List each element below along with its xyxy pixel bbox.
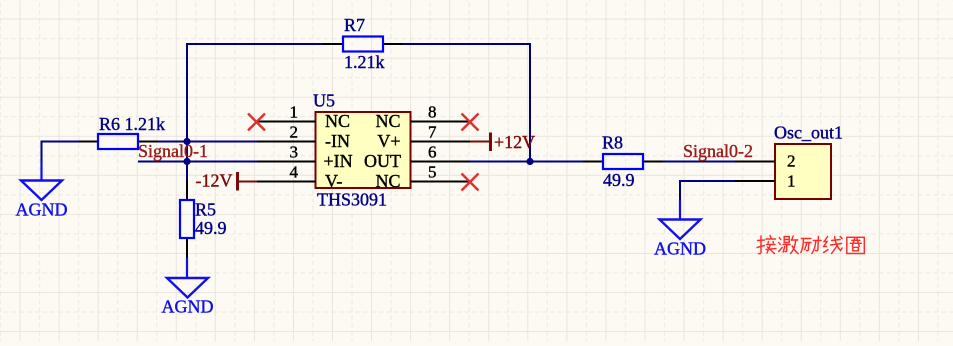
U5 pin 2 (257, 141, 316, 143)
no connect X on pin 8 (462, 114, 479, 131)
svg-text:2: 2 (787, 152, 796, 171)
svg-text:1.21k: 1.21k (344, 52, 385, 72)
svg-text:R8: R8 (602, 133, 623, 153)
wire R7 right to output node (403, 44, 530, 162)
svg-text:V+: V+ (377, 131, 400, 151)
wire -IN net from R6 to pin 2 (158, 141, 257, 143)
svg-text:49.9: 49.9 (603, 170, 635, 190)
svg-text:1: 1 (290, 103, 299, 122)
svg-text:AGND: AGND (162, 297, 214, 317)
wire R6 left to AGND corner (42, 142, 80, 162)
svg-text:1: 1 (787, 172, 796, 191)
svg-text:6: 6 (428, 143, 437, 162)
svg-text:-12V: -12V (196, 171, 233, 191)
annotation text 接激励线圈 drawn as strokes (757, 236, 864, 254)
U5 pin 1 (257, 121, 316, 123)
U5 pin 8 (411, 121, 471, 123)
char li 励 (801, 237, 821, 254)
op-amp U5 THS3091 (316, 112, 411, 188)
resistor R7 (323, 37, 403, 52)
svg-text:NC: NC (325, 111, 350, 131)
svg-text:7: 7 (428, 123, 437, 142)
wire R8 to connector pin 2 (663, 161, 735, 163)
resistor R6 (79, 134, 158, 149)
ground AGND right power port (654, 200, 706, 259)
resistor R8 (583, 154, 663, 169)
power port -12V (196, 171, 258, 191)
svg-text:R6 1.21k: R6 1.21k (99, 114, 165, 134)
svg-text:R7: R7 (344, 15, 365, 35)
svg-text:Osc_out1: Osc_out1 (774, 123, 843, 143)
svg-text:NC: NC (375, 111, 400, 131)
svg-text:+IN: +IN (324, 151, 353, 171)
wire +IN net stub to pin 3 (138, 161, 257, 163)
char ji 激 (779, 236, 799, 254)
power port +12V on pin 7 (470, 132, 535, 152)
svg-text:+12V: +12V (494, 132, 535, 152)
ground AGND left power port (16, 162, 68, 220)
no connect X on pin 1 (248, 114, 265, 131)
U5 pin 3 (257, 161, 316, 163)
wire connector pin 1 to AGND corner (680, 181, 735, 200)
U5 pin 6 (411, 161, 471, 163)
svg-text:2: 2 (290, 123, 299, 142)
U5 pin 5 (411, 181, 471, 183)
svg-text:AGND: AGND (654, 239, 706, 259)
connector pin 2 (735, 161, 775, 163)
svg-text:AGND: AGND (16, 200, 68, 220)
node A junction (183, 138, 190, 145)
svg-text:4: 4 (290, 163, 299, 182)
connector pin 1 (735, 180, 775, 182)
svg-text:U5: U5 (313, 91, 335, 111)
node C output junction (526, 158, 533, 165)
svg-text:49.9: 49.9 (195, 218, 227, 238)
char quan 圈 (847, 237, 865, 253)
svg-text:R5: R5 (195, 200, 216, 220)
svg-text:V-: V- (325, 171, 342, 191)
svg-text:8: 8 (428, 103, 437, 122)
U5 pin 4 (257, 181, 316, 183)
no connect X on pin 5 (462, 174, 479, 191)
svg-text:5: 5 (428, 163, 437, 182)
wire pin 6 to output node (470, 161, 530, 163)
svg-text:3: 3 (290, 143, 299, 162)
svg-text:THS3091: THS3091 (317, 190, 387, 210)
svg-text:-IN: -IN (325, 131, 350, 151)
char jie 接 (757, 236, 776, 254)
svg-text:NC: NC (375, 171, 400, 191)
ground AGND middle power port (162, 258, 214, 317)
wire vertical node A to node B (186, 142, 188, 181)
svg-text:OUT: OUT (364, 151, 401, 171)
char xian 线 (824, 237, 843, 254)
svg-text:Signal0-2: Signal0-2 (683, 141, 753, 161)
connector Osc_out1 (775, 144, 831, 199)
resistor R5 (180, 180, 194, 258)
wire output node to R8 (530, 161, 583, 163)
svg-text:Signal0-1: Signal0-1 (138, 141, 208, 161)
node B junction (183, 158, 190, 165)
U5 pin 7 (411, 141, 471, 143)
wire feedback top horizontal from node A to R7 left (187, 44, 323, 142)
